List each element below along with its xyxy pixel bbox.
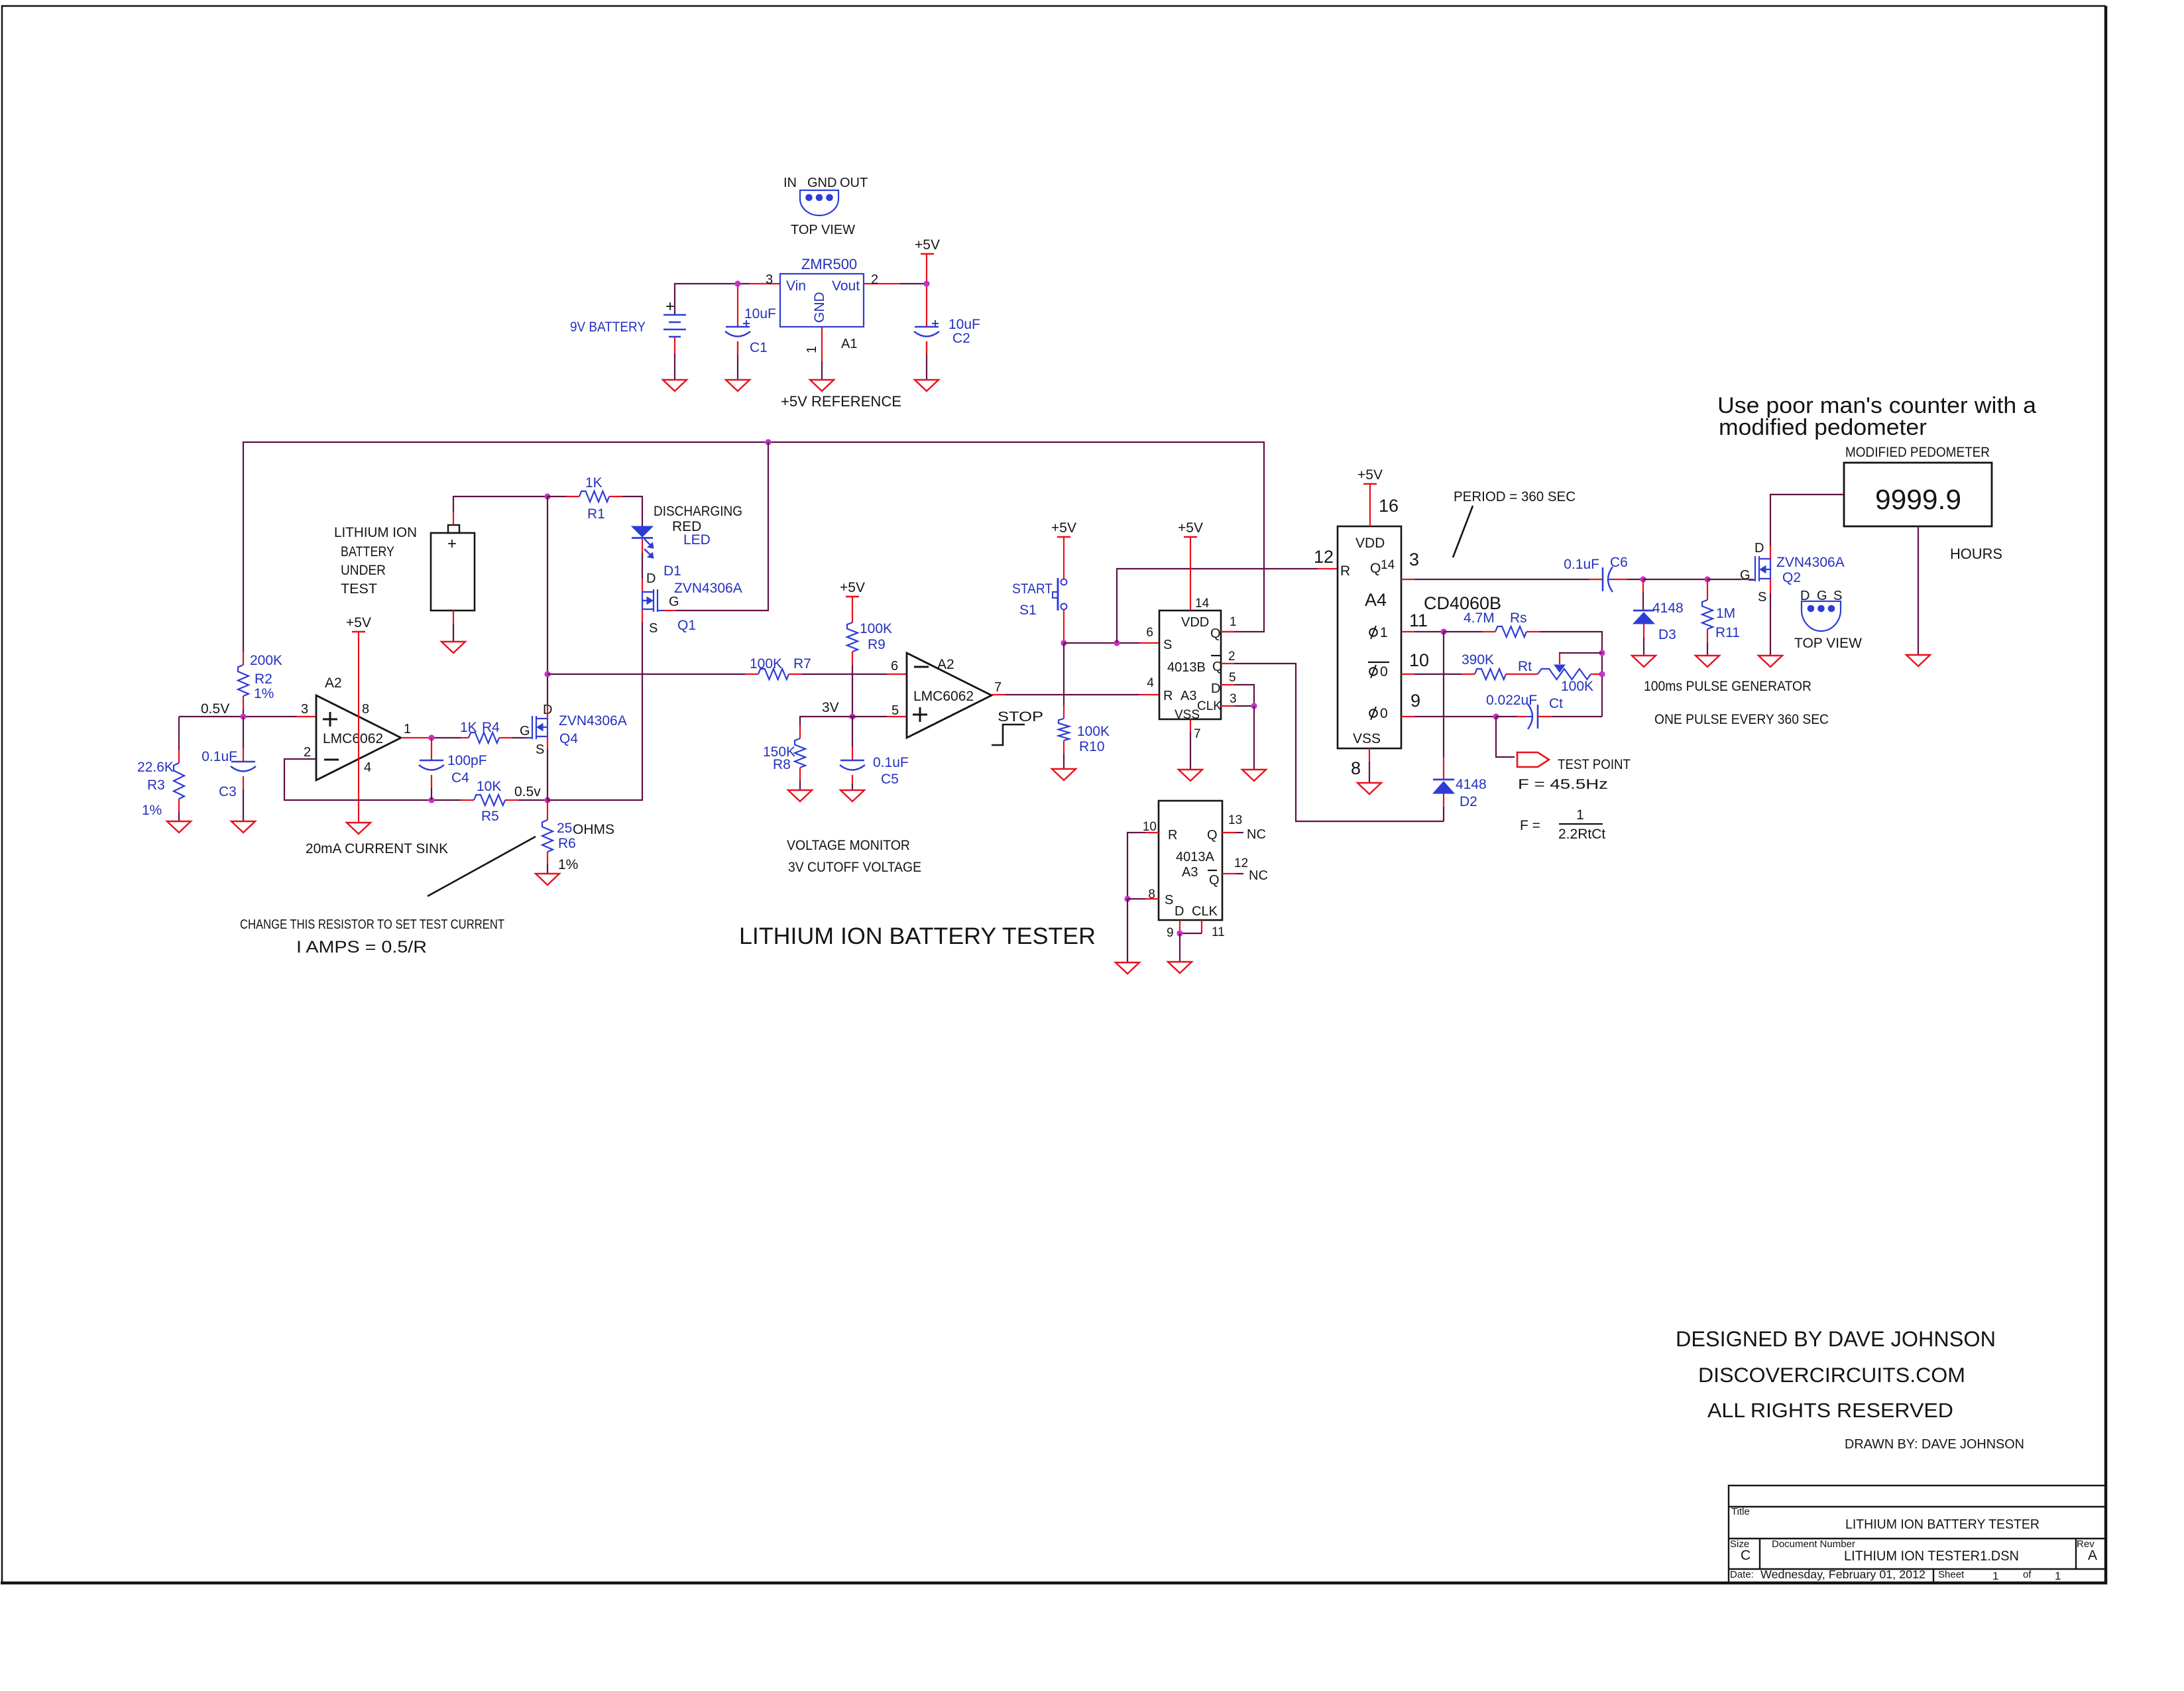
svg-text:G: G [669, 595, 679, 609]
svg-text:LMC6062: LMC6062 [913, 689, 974, 704]
svg-text:Q: Q [1212, 660, 1223, 674]
svg-text:VDD: VDD [1181, 615, 1209, 630]
svg-text:LITHIUM ION: LITHIUM ION [334, 525, 417, 540]
svg-text:TOP VIEW: TOP VIEW [1794, 636, 1862, 651]
svg-text:R: R [1163, 689, 1173, 703]
capacitor C4 100pF [431, 738, 432, 760]
wire: 4013B D pin 5 to CLK [1221, 684, 1234, 685]
wire: feedback to 0.5v node through R5 [431, 799, 461, 801]
svg-text:R: R [1168, 828, 1177, 843]
svg-text:R9: R9 [868, 637, 886, 652]
svg-text:D: D [646, 571, 656, 586]
resistor R4 1K [461, 737, 469, 738]
svg-text:3V: 3V [822, 700, 839, 715]
svg-text:S: S [1165, 893, 1173, 907]
svg-text:IN: IN [783, 176, 797, 190]
svg-text:8: 8 [362, 702, 369, 717]
IC A4 CD4060B box [1338, 526, 1401, 748]
svg-text:A: A [2088, 1548, 2097, 1563]
wire: C2 bottom to ground [926, 341, 927, 380]
ground [231, 821, 255, 833]
diode D3 4148 [1642, 579, 1644, 593]
svg-text:A2: A2 [937, 657, 954, 672]
wire: battery bottom to ground [674, 337, 675, 353]
wire: long top net from R2 to 4013B Q pin 1 [243, 442, 1264, 652]
junction: 4013A R/S tie [1124, 896, 1130, 902]
wire: 4013A R/S tie to ground [1127, 899, 1128, 962]
svg-text:modified pedometer: modified pedometer [1719, 415, 1927, 440]
svg-text:4013A: 4013A [1176, 850, 1214, 864]
battery under test symbol [431, 533, 475, 611]
junction: S node (S1/R10) [1061, 640, 1066, 646]
junction: battery/R1/Q4-drain node [544, 493, 550, 499]
svg-text:0: 0 [1380, 706, 1388, 721]
test point tap wire [1496, 717, 1515, 757]
svg-text:1M: 1M [1716, 606, 1735, 621]
svg-text:D3: D3 [1658, 627, 1676, 642]
junction: pot end tie [1599, 671, 1605, 677]
svg-text:5: 5 [1229, 671, 1236, 685]
stop step waveform symbol [992, 725, 1025, 745]
svg-text:LITHIUM ION BATTERY TESTER: LITHIUM ION BATTERY TESTER [1845, 1517, 2040, 1532]
svg-text:G: G [1817, 589, 1827, 603]
junction: phi1 node [1440, 628, 1446, 634]
svg-text:Vout: Vout [832, 278, 860, 294]
junction: 4013A D/CLK tie [1177, 930, 1182, 936]
resistor R11 1M [1707, 579, 1708, 600]
wire: regulator GND pin 1 to ground [821, 327, 823, 361]
svg-text:R: R [1340, 563, 1350, 579]
+5V power symbol [846, 596, 859, 598]
svg-text:6: 6 [891, 659, 898, 673]
wire: CD4060B phi0bar pin 10 [1401, 673, 1414, 675]
svg-text:200K: 200K [250, 653, 282, 668]
svg-text:R2: R2 [255, 671, 272, 687]
wire: Q2 source to ground [1770, 579, 1771, 593]
capacitor C5 0.1uF [852, 717, 853, 747]
svg-text:3: 3 [766, 272, 773, 287]
svg-text:BATTERY: BATTERY [341, 544, 394, 559]
svg-text:10: 10 [1409, 650, 1429, 670]
ground [1242, 770, 1266, 781]
svg-text:ONE PULSE EVERY 360 SEC: ONE PULSE EVERY 360 SEC [1654, 712, 1829, 727]
transistor Q2 ZVN4306A [1749, 556, 1770, 581]
svg-text:LITHIUM ION BATTERY TESTER: LITHIUM ION BATTERY TESTER [739, 923, 1096, 949]
svg-text:NC: NC [1247, 827, 1266, 842]
svg-text:Vin: Vin [786, 278, 806, 294]
svg-text:S: S [1833, 589, 1842, 603]
svg-text:390K: 390K [1462, 652, 1494, 668]
capacitor Ct 0.022uF [1537, 705, 1539, 729]
svg-text:100K: 100K [860, 621, 892, 636]
svg-text:LITHIUM ION TESTER1.DSN: LITHIUM ION TESTER1.DSN [1844, 1548, 2019, 1564]
wire: 4013B CLK pin 3 [1221, 705, 1234, 707]
junction: C4 bottom / feedback [428, 797, 434, 803]
svg-text:Ct: Ct [1549, 696, 1563, 711]
switch S1 START pushbutton [1063, 537, 1064, 579]
junction: R11 node [1704, 576, 1710, 582]
resistor Rt 390K [1475, 669, 1506, 679]
wire: CD4060B phi1 pin 11 [1401, 631, 1414, 632]
wire: CLK tie to ground [1253, 706, 1255, 770]
svg-text:Rs: Rs [1510, 611, 1527, 626]
svg-text:4: 4 [364, 760, 371, 775]
wire: CD4060B VDD pin 16 [1369, 484, 1371, 526]
svg-text:10K: 10K [477, 779, 501, 794]
wire: LED cathode to Q1 drain [642, 539, 643, 553]
svg-text:UNDER: UNDER [341, 563, 386, 578]
wire: pedometer to ground [1918, 526, 1919, 655]
junction: 3V node [849, 713, 855, 719]
svg-text:Q4: Q4 [559, 731, 578, 746]
svg-text:A4: A4 [1365, 590, 1387, 610]
svg-text:+5V: +5V [1178, 520, 1203, 536]
svg-text:12: 12 [1234, 856, 1248, 870]
svg-text:LED: LED [683, 532, 711, 548]
svg-text:Q: Q [1207, 828, 1218, 843]
svg-text:100ms PULSE GENERATOR: 100ms PULSE GENERATOR [1644, 679, 1811, 694]
wire: 4013A Qbar pin 12 NC stub [1222, 873, 1236, 874]
svg-text:+5V REFERENCE: +5V REFERENCE [781, 393, 901, 410]
resistor R2 200K [243, 652, 244, 665]
svg-text:S: S [1163, 638, 1172, 652]
svg-text:0: 0 [1380, 664, 1388, 679]
ground [810, 380, 834, 391]
+5V power symbol [1363, 483, 1377, 485]
svg-text:Q1: Q1 [677, 618, 696, 633]
wire: Q1 gate drop [676, 442, 768, 611]
svg-text:0.1uF: 0.1uF [1564, 557, 1599, 572]
capacitor C2 [915, 326, 939, 328]
wire: pot wiper stem [1559, 654, 1560, 664]
svg-text:F = 45.5Hz: F = 45.5Hz [1518, 777, 1608, 792]
regulator A1 ZMR500 box [780, 274, 864, 327]
svg-text:S: S [1758, 590, 1766, 605]
svg-text:A1: A1 [841, 337, 857, 351]
svg-text:1: 1 [1992, 1570, 1998, 1582]
svg-text:Wednesday, February 01, 2012: Wednesday, February 01, 2012 [1760, 1568, 1925, 1581]
+5V power symbol [921, 253, 934, 255]
wire: regulator pin 2 to +5V node [864, 283, 900, 284]
junction: +5V/C2 node [923, 280, 929, 286]
wire: battery under test - to ground [453, 611, 454, 624]
svg-text:9: 9 [1167, 926, 1174, 940]
svg-text:Q: Q [1209, 873, 1220, 888]
wire: S1 to S-node [1063, 610, 1064, 643]
svg-text:MODIFIED PEDOMETER: MODIFIED PEDOMETER [1845, 445, 1990, 460]
svg-text:C: C [1741, 1548, 1751, 1563]
svg-text:9V BATTERY: 9V BATTERY [570, 320, 646, 335]
svg-text:R7: R7 [793, 656, 811, 671]
svg-text:DRAWN BY: DAVE JOHNSON: DRAWN BY: DAVE JOHNSON [1845, 1437, 2024, 1452]
wire: monitor output to 4013B R pin 4 [992, 694, 1005, 695]
wire: 4013A R pin 10 to S pin 8 tie [1145, 832, 1159, 833]
wire: Q4 source down to 0.5v node [547, 736, 548, 749]
svg-text:1: 1 [2055, 1570, 2061, 1582]
wire: 4013A CLK pin 11 down and over [1201, 920, 1202, 933]
svg-text:1%: 1% [558, 857, 578, 872]
+5V power symbol [352, 631, 365, 633]
svg-text:11: 11 [1409, 611, 1428, 630]
svg-text:S: S [649, 621, 658, 636]
svg-text:DISCHARGING: DISCHARGING [654, 504, 742, 519]
svg-text:S1: S1 [1019, 603, 1037, 618]
ground [1695, 656, 1719, 667]
svg-text:S: S [536, 742, 544, 757]
svg-text:ALL RIGHTS RESERVED: ALL RIGHTS RESERVED [1707, 1399, 1953, 1422]
capacitor C6 0.1uF [1602, 567, 1604, 591]
wire: CD4060B Q14 pin 3 to C6 [1401, 579, 1414, 580]
ground [1052, 769, 1076, 780]
svg-text:GND: GND [807, 176, 836, 190]
junction: S node to CD4060B reset riser [1114, 640, 1120, 646]
svg-text:2.2RtCt: 2.2RtCt [1558, 827, 1605, 842]
svg-text:4148: 4148 [1652, 601, 1684, 616]
svg-text:A2: A2 [325, 675, 342, 691]
wire: 4013A Q pin 13 NC stub [1222, 832, 1236, 833]
ground [1906, 655, 1930, 666]
resistor R6 25 OHMS [547, 800, 548, 820]
ground [1116, 962, 1139, 974]
svg-text:DISCOVERCIRCUITS.COM: DISCOVERCIRCUITS.COM [1698, 1363, 1965, 1387]
ground [840, 790, 864, 801]
junction: test point tap [1493, 713, 1499, 719]
svg-text:4148: 4148 [1456, 777, 1487, 792]
svg-text:4013B: 4013B [1167, 660, 1206, 675]
svg-text:C1: C1 [750, 340, 768, 355]
junction: Vin/C1 node [734, 280, 740, 286]
transistor Q4 ZVN4306A [526, 716, 547, 739]
junction: output / C4 top [428, 734, 434, 740]
svg-text:C2: C2 [952, 331, 970, 346]
svg-text:2: 2 [871, 272, 878, 287]
svg-text:10uF: 10uF [744, 306, 776, 321]
svg-text:7: 7 [1194, 727, 1201, 741]
svg-text:6: 6 [1146, 626, 1153, 640]
svg-text:R5: R5 [481, 809, 499, 824]
diode D2 4148 [1443, 632, 1444, 757]
svg-text:VOLTAGE MONITOR: VOLTAGE MONITOR [787, 838, 910, 853]
svg-text:+: + [665, 298, 675, 316]
svg-text:Sheet: Sheet [1938, 1569, 1965, 1580]
svg-text:OHMS: OHMS [573, 822, 614, 837]
resistor R9 100K [852, 597, 853, 622]
resistor R1 1K [547, 496, 566, 497]
svg-text:D: D [1754, 541, 1764, 555]
svg-text:PERIOD = 360 SEC: PERIOD = 360 SEC [1454, 489, 1576, 504]
wire: CD4060B phi0 pin 9 to Ct [1401, 716, 1414, 717]
capacitor C1 [726, 326, 750, 328]
svg-text:D: D [1211, 681, 1220, 696]
svg-text:14: 14 [1195, 597, 1210, 611]
svg-text:100pF: 100pF [447, 753, 487, 768]
wire: S node riser to CD4060B R pin 12 [1117, 569, 1318, 643]
wire: C2 stub [926, 284, 927, 327]
ground [167, 821, 191, 833]
svg-text:DESIGNED BY DAVE JOHNSON: DESIGNED BY DAVE JOHNSON [1676, 1327, 1996, 1351]
svg-text:0.5V: 0.5V [201, 701, 229, 717]
svg-text:TEST POINT: TEST POINT [1558, 757, 1631, 772]
svg-text:R8: R8 [773, 757, 791, 772]
svg-text:3: 3 [1409, 550, 1419, 569]
+5V power symbol [1057, 536, 1070, 538]
ground [1357, 783, 1381, 794]
svg-text:1: 1 [404, 722, 411, 736]
svg-text:GND: GND [812, 292, 827, 323]
svg-text:+5V: +5V [1051, 520, 1076, 536]
svg-text:C4: C4 [451, 770, 469, 786]
svg-text:VDD: VDD [1355, 536, 1385, 551]
svg-text:7: 7 [994, 680, 1002, 695]
ground [536, 874, 559, 885]
wire: 4013B Qbar pin 2 to D2 net [1221, 663, 1234, 664]
svg-text:R10: R10 [1079, 739, 1105, 754]
junction: D3 node [1640, 576, 1646, 582]
LED D1 discharging red [632, 526, 653, 537]
svg-text:I AMPS = 0.5/R: I AMPS = 0.5/R [296, 938, 427, 957]
wire: op-amp power rail pin8/pin4 [358, 632, 359, 823]
wire: Rs to right riser [1540, 632, 1602, 717]
svg-text:Q2: Q2 [1782, 570, 1801, 585]
op-amp A2 LMC6062 (current sink) [316, 695, 401, 780]
svg-text:+: + [447, 535, 457, 553]
svg-text:A3: A3 [1182, 865, 1198, 880]
svg-text:1: 1 [805, 346, 819, 353]
svg-text:22.6K: 22.6K [137, 760, 174, 775]
title block [1729, 1486, 2106, 1583]
svg-text:Q: Q [1210, 626, 1221, 641]
+5V power symbol [1184, 536, 1197, 538]
svg-text:STOP: STOP [998, 709, 1043, 725]
resistor R7 100K [758, 669, 789, 679]
svg-text:8: 8 [1351, 758, 1361, 778]
wire: op-amp output pin 1 [401, 737, 431, 738]
wire: 4013B VSS pin 7 to ground [1190, 719, 1191, 732]
ground [915, 380, 939, 391]
svg-text:4.7M: 4.7M [1464, 611, 1495, 626]
wire: Q2 drain to pedometer [1770, 546, 1771, 559]
svg-text:G: G [520, 724, 530, 738]
resistor R8 150K [799, 725, 801, 738]
svg-text:CHANGE THIS RESISTOR TO SET TE: CHANGE THIS RESISTOR TO SET TEST CURRENT [240, 917, 504, 932]
junction: 0.5V node [240, 713, 246, 719]
wire: R8 corner [800, 717, 852, 725]
junction: D/CLK tie [1251, 703, 1257, 709]
ground [1758, 656, 1782, 667]
svg-text:1%: 1% [142, 803, 162, 818]
wire: C1 bottom to ground [737, 341, 738, 380]
wire: 4013A D/CLK tie to ground [1179, 933, 1180, 962]
svg-text:3V CUTOFF VOLTAGE: 3V CUTOFF VOLTAGE [788, 860, 921, 875]
svg-text:ZVN4306A: ZVN4306A [674, 581, 742, 596]
wire: Vin node to regulator pin 3 [738, 283, 749, 284]
resistor R10 100K [1063, 643, 1064, 705]
svg-text:0.1uF: 0.1uF [873, 755, 909, 770]
svg-text:+5V: +5V [840, 580, 865, 595]
svg-text:14: 14 [1381, 558, 1395, 572]
svg-text:100K: 100K [750, 656, 782, 671]
ground [726, 380, 750, 391]
svg-text:C6: C6 [1610, 555, 1628, 570]
svg-text:A3: A3 [1180, 689, 1196, 703]
IC A3 4013B box [1159, 611, 1221, 719]
svg-text:Title: Title [1731, 1506, 1750, 1517]
wire: 4013B Q pin 1 stub [1221, 631, 1234, 632]
ground [1178, 770, 1202, 781]
svg-text:TOP VIEW: TOP VIEW [791, 223, 855, 237]
svg-text:D1: D1 [663, 563, 681, 579]
resistor R5 10K [474, 795, 505, 805]
pointer line to R6 [428, 837, 536, 896]
wire: 4013A D pin 9 down [1179, 920, 1180, 933]
svg-text:D: D [1175, 904, 1184, 919]
svg-text:D: D [1800, 589, 1810, 603]
svg-text:VSS: VSS [1353, 731, 1381, 746]
svg-text:1K: 1K [460, 720, 477, 735]
svg-text:G: G [1740, 568, 1751, 583]
svg-text:2: 2 [304, 745, 311, 760]
svg-text:VSS: VSS [1175, 708, 1200, 722]
junction: 0.5v node [544, 797, 550, 803]
Q2 package top view [1802, 601, 1841, 631]
svg-text:9: 9 [1410, 691, 1420, 711]
wire: op-amp pin 2 feedback loop [284, 759, 431, 800]
svg-text:Rt: Rt [1518, 659, 1532, 674]
capacitor C3 0.1uF [243, 717, 244, 748]
wire: Q4 drain up to battery node [547, 705, 548, 719]
svg-text:11: 11 [1212, 925, 1225, 939]
svg-text:Document Number: Document Number [1772, 1539, 1855, 1550]
svg-text:25: 25 [557, 821, 572, 836]
op-amp A2 LMC6062 (voltage monitor) [907, 653, 992, 738]
svg-text:F =: F = [1520, 818, 1540, 833]
svg-text:HOURS: HOURS [1950, 546, 2002, 562]
svg-text:ZVN4306A: ZVN4306A [1776, 555, 1845, 570]
wire: R7 node to voltage monitor [547, 673, 745, 675]
svg-text:NC: NC [1249, 868, 1268, 883]
svg-text:10: 10 [1143, 820, 1157, 834]
ground [347, 823, 371, 834]
transistor Q1 ZVN4306A [642, 589, 664, 612]
svg-text:Date:: Date: [1730, 1569, 1754, 1580]
svg-text:20mA CURRENT SINK: 20mA CURRENT SINK [306, 841, 448, 856]
wire: 3V node to op-amp pin 5 [852, 716, 887, 717]
svg-text:1: 1 [1576, 807, 1584, 823]
svg-text:ZVN4306A: ZVN4306A [559, 713, 627, 729]
svg-text:CLK: CLK [1192, 904, 1218, 919]
svg-text:10uF: 10uF [948, 317, 980, 332]
svg-text:START: START [1012, 581, 1053, 597]
svg-text:3: 3 [1230, 692, 1237, 706]
svg-text:+5V: +5V [1357, 467, 1383, 483]
svg-text:ZMR500: ZMR500 [801, 256, 857, 272]
potentiometer 100K [1538, 669, 1591, 679]
svg-text:D2: D2 [1460, 794, 1477, 809]
wire: node down to Q4 drain [547, 496, 548, 674]
svg-text:4: 4 [1147, 676, 1154, 690]
wire: 0.5V node [179, 716, 243, 717]
svg-text:0.022uF: 0.022uF [1486, 693, 1537, 708]
svg-text:1: 1 [1380, 625, 1388, 640]
svg-text:2: 2 [1228, 650, 1236, 664]
resistor Rs 4.7M [1444, 631, 1482, 632]
resistor R3 22.6K [178, 717, 180, 750]
junction: top net to Q1 gate drop [765, 439, 771, 445]
svg-text:+5V: +5V [915, 237, 940, 253]
svg-text:of: of [2023, 1569, 2032, 1580]
svg-text:R11: R11 [1715, 625, 1740, 640]
svg-text:1%: 1% [254, 686, 274, 701]
